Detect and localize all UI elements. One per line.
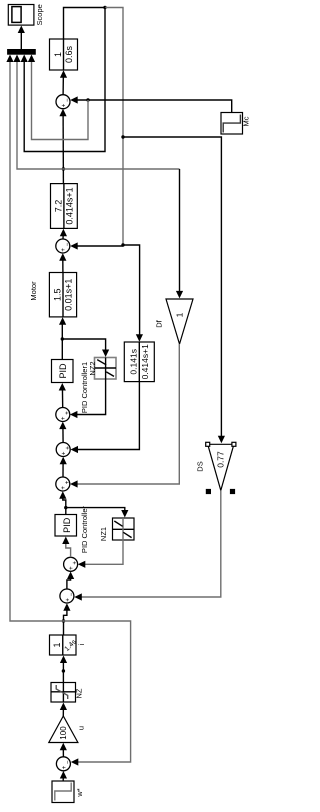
svg-text:1.5: 1.5 — [52, 288, 62, 301]
label w* — [75, 788, 84, 797]
label NZ — [75, 688, 84, 698]
svg-text:+: + — [61, 416, 67, 420]
svg-text:Df: Df — [155, 319, 164, 327]
svg-text:100: 100 — [59, 726, 68, 740]
wire PID1 to NZ2 — [62, 339, 109, 357]
svg-text:0.01s+1: 0.01s+1 — [64, 279, 74, 311]
label u — [77, 726, 86, 730]
gain block DS value 0.77 — [208, 444, 234, 490]
wire block 1/0.6s to node w with junction J5 — [64, 6, 107, 39]
wire w to S5 — [70, 242, 123, 249]
scope block — [8, 5, 34, 26]
wire w to block 0.141s — [123, 245, 143, 342]
wire w to Df gain — [63, 169, 183, 298]
wire Df to S3 — [70, 344, 179, 488]
svg-text:NZ: NZ — [75, 688, 84, 698]
sum S2a — [64, 557, 79, 571]
gain block 100 — [49, 716, 78, 743]
wire Motor to S5 — [59, 253, 66, 272]
wire w* to S1 — [60, 771, 67, 781]
svg-text:Motor: Motor — [29, 281, 38, 301]
dead zone block NZ — [51, 683, 76, 703]
sum S4a — [56, 408, 71, 422]
wire DS to S2 — [74, 490, 221, 600]
wire S6 to block 1/0.6s — [60, 70, 67, 94]
wire S4 to S4a — [59, 422, 66, 443]
saturation block NZ1 — [113, 518, 135, 540]
svg-text:+: + — [69, 566, 75, 570]
svg-text:1: 1 — [175, 312, 185, 317]
sum S2 — [60, 589, 75, 603]
mux — [8, 50, 36, 55]
svg-text:+: + — [65, 411, 71, 415]
transfer fcn block Motor 1.5/0.01s+1 — [49, 273, 76, 317]
label Df — [155, 319, 164, 327]
svg-text:PID: PID — [62, 517, 72, 533]
svg-text:−: − — [65, 98, 71, 102]
svg-text:−: − — [65, 242, 71, 246]
wire i to mux input 1 — [6, 55, 63, 622]
svg-text:NZ2: NZ2 — [88, 361, 97, 375]
wire S5 to block 7.2 — [60, 229, 67, 239]
transfer fcn block 1/1.4s — [50, 635, 79, 655]
label PID Controller — [80, 505, 89, 553]
wire block 7.2 to S6 with junction J4 — [59, 109, 66, 184]
svg-text:0.414s+1: 0.414s+1 — [65, 187, 75, 224]
wire block i to S2 with junction J1 — [62, 603, 71, 635]
wire PID to S3 with junction J2 — [59, 491, 67, 514]
svg-text:7.2: 7.2 — [53, 200, 63, 213]
svg-text:1: 1 — [53, 52, 63, 57]
PID controller block U2 — [52, 360, 74, 383]
wire Mc to S6 with junction J8 — [70, 96, 232, 112]
selection handles of DS — [206, 442, 236, 493]
PID controller block U1 — [55, 515, 77, 537]
svg-text:Mc: Mc — [242, 116, 251, 126]
sum S4 — [56, 443, 71, 457]
step source block Mc — [221, 113, 243, 135]
svg-text:PID Controller: PID Controller — [80, 505, 89, 553]
svg-text:+: + — [61, 486, 67, 490]
svg-text:+: + — [65, 446, 71, 450]
label DS — [196, 461, 205, 471]
svg-text:PID: PID — [58, 363, 68, 379]
wire w trunk gray with junctions J6 J7 — [105, 8, 125, 247]
label i — [77, 643, 86, 645]
wire NZ2 to S4a — [70, 379, 106, 418]
svg-text:+: + — [61, 248, 67, 252]
sum S3 — [56, 477, 71, 491]
sum S1 — [56, 757, 71, 771]
svg-text:+: + — [65, 598, 71, 602]
svg-text:0.141s: 0.141s — [129, 349, 139, 375]
label Motor — [29, 281, 38, 301]
wire S2 to S2a — [67, 572, 74, 590]
svg-text:Scope: Scope — [35, 4, 44, 25]
wire PID to NZ1 — [66, 508, 129, 518]
label Scope — [35, 4, 44, 25]
sum S6 — [56, 95, 71, 109]
svg-text:−: − — [69, 592, 75, 596]
label Mc — [242, 116, 251, 126]
saturation block NZ2 — [95, 358, 117, 380]
wire M to mux input 2 — [13, 55, 63, 170]
gain block Df value 1 — [166, 299, 193, 344]
svg-text:0.414s+1: 0.414s+1 — [140, 344, 150, 379]
svg-text:+: + — [62, 451, 68, 455]
transfer fcn block 7.2/0.414s+1 — [51, 184, 78, 229]
step source block w* — [52, 781, 74, 803]
transfer fcn block 0.141s/0.414s+1 — [124, 342, 154, 382]
wire NZ1 to S2a — [78, 540, 123, 568]
wire w to mux input 3 — [21, 8, 105, 152]
svg-text:−: − — [66, 760, 72, 764]
svg-text:NZ1: NZ1 — [99, 527, 108, 541]
svg-text:1: 1 — [52, 642, 62, 647]
label NZ1 — [99, 527, 108, 541]
wire mux to scope — [18, 26, 25, 50]
sum S5 — [56, 239, 71, 253]
wire S2a to PID — [62, 537, 70, 558]
wire w to DS gain — [123, 137, 225, 443]
svg-text:u: u — [77, 726, 86, 730]
label NZ2 — [88, 361, 97, 375]
svg-text:+: + — [73, 561, 79, 565]
wire PID1 to Motor with junction J3 — [59, 317, 66, 359]
svg-text:w*: w* — [75, 788, 84, 797]
wire S3 to S4 — [60, 457, 67, 477]
svg-text:DS: DS — [196, 461, 205, 471]
wire NZ to block i with junction node — [60, 656, 67, 683]
wire block 0.141s to S4 — [71, 382, 140, 454]
wire i to S1 feedback — [64, 621, 131, 766]
wire Mc to mux input 4 — [28, 55, 88, 140]
svg-text:+: + — [62, 765, 68, 769]
svg-text:+: + — [65, 480, 71, 484]
svg-text:+: + — [61, 103, 67, 107]
wire S4a to PID1 — [59, 383, 66, 408]
wire gain 100 to NZ — [60, 703, 67, 717]
svg-text:0.77: 0.77 — [215, 451, 225, 468]
transfer fcn block 1/0.6s — [50, 39, 78, 70]
wire S1 to gain 100 — [60, 743, 67, 757]
label PID Controller1 — [80, 362, 89, 413]
svg-text:0.6s: 0.6s — [64, 45, 74, 63]
